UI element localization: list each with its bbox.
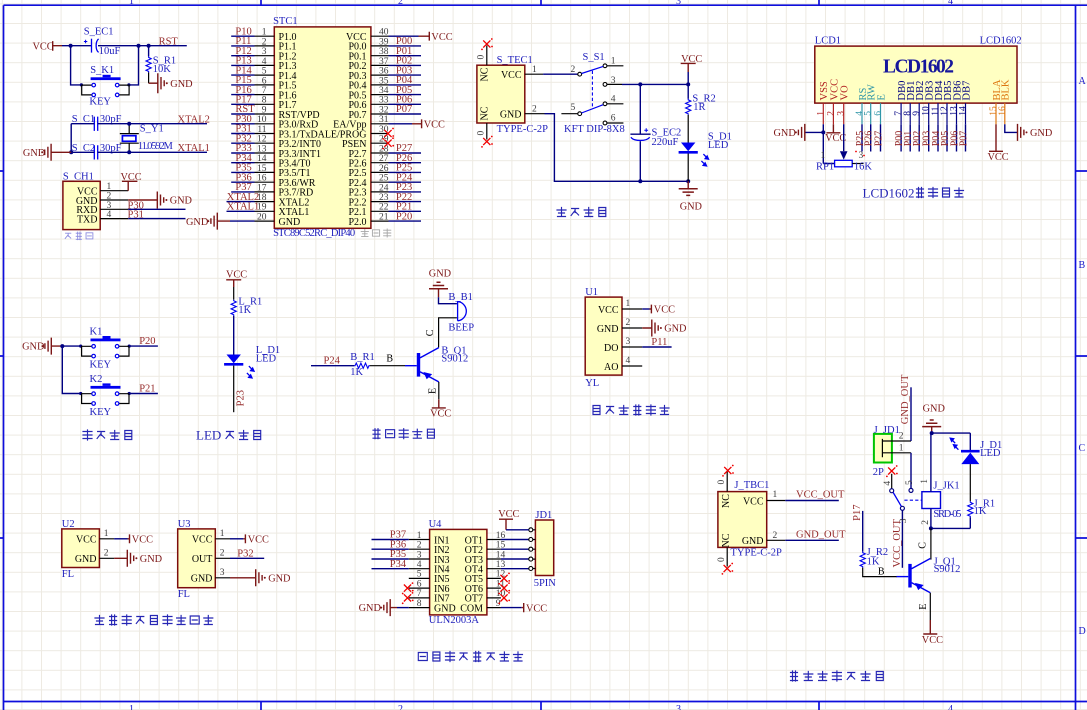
svg-text:GND: GND — [597, 324, 619, 335]
ground — [774, 124, 805, 141]
title stepper motor (Chinese) — [418, 652, 522, 662]
wire node B — [370, 353, 405, 365]
svg-text:1: 1 — [816, 111, 826, 116]
svg-text:E: E — [918, 604, 929, 610]
wire P21 — [129, 383, 158, 394]
wire — [687, 72, 689, 99]
ground — [128, 192, 192, 209]
junction — [69, 44, 151, 48]
svg-text:GND: GND — [1030, 128, 1053, 139]
svg-text:2: 2 — [899, 432, 904, 442]
svg-text:GND: GND — [75, 554, 97, 565]
potentiometer RP1 16K — [816, 151, 872, 173]
svg-text:STC1: STC1 — [273, 16, 298, 27]
svg-text:K2: K2 — [90, 374, 103, 385]
ground keys — [22, 338, 62, 355]
svg-text:1K: 1K — [350, 367, 363, 378]
wire P24 — [311, 355, 354, 366]
wire to key — [71, 46, 139, 85]
LED S_D1 — [679, 132, 732, 167]
svg-text:VCC: VCC — [498, 509, 519, 520]
wire — [805, 124, 835, 163]
svg-text:5: 5 — [571, 103, 576, 113]
ground — [149, 73, 194, 93]
svg-text:VCC: VCC — [226, 270, 247, 281]
connector J_JD1 2P — [873, 425, 911, 478]
pin stubs — [409, 540, 501, 608]
svg-text:2: 2 — [773, 531, 778, 541]
LED J_D1 — [949, 433, 1002, 464]
svg-text:VCC: VCC — [501, 70, 522, 81]
resistor L_R1 1K — [231, 296, 262, 316]
pin 1 stub — [525, 65, 543, 75]
svg-text:2: 2 — [571, 65, 576, 75]
relay contact 4 — [883, 474, 894, 493]
svg-text:10uF: 10uF — [99, 46, 121, 57]
svg-text:220uF: 220uF — [652, 137, 679, 148]
wire P32 — [230, 548, 264, 559]
svg-text:XTAL1: XTAL1 — [178, 143, 210, 154]
power port VCC — [825, 124, 846, 144]
pin numbers — [107, 182, 112, 220]
svg-text:1: 1 — [220, 529, 225, 539]
svg-text:5: 5 — [905, 480, 915, 485]
wire XTAL2 net — [71, 123, 207, 125]
svg-text:1: 1 — [104, 529, 109, 539]
svg-text:NC: NC — [721, 494, 732, 508]
no-connect pin30 — [382, 128, 394, 140]
svg-text:10: 10 — [257, 115, 267, 125]
power port VCC — [33, 41, 63, 52]
svg-text:C: C — [1079, 443, 1086, 454]
push button K1 KEY — [82, 326, 129, 370]
svg-text:1: 1 — [626, 299, 631, 309]
wire bottom rail — [931, 517, 970, 528]
wire — [639, 141, 641, 181]
wire — [233, 287, 235, 300]
no-connect OT5 — [498, 573, 510, 585]
svg-text:13: 13 — [257, 144, 267, 154]
svg-text:GND: GND — [774, 128, 797, 139]
svg-text:XTAL2: XTAL2 — [178, 115, 210, 126]
svg-text:0: 0 — [477, 131, 487, 136]
title infrared switch module (Chinese) — [95, 615, 213, 625]
svg-text:3: 3 — [626, 337, 631, 347]
svg-text:COM: COM — [460, 603, 483, 614]
svg-text:FL: FL — [62, 569, 74, 580]
svg-text:GND: GND — [140, 554, 163, 565]
pin stubs — [823, 103, 1005, 124]
svg-text:0: 0 — [717, 557, 727, 562]
ground — [114, 550, 163, 567]
svg-text:BEEP: BEEP — [448, 322, 474, 333]
svg-text:5: 5 — [864, 111, 874, 116]
node XTAL1 label — [178, 143, 210, 154]
capacitor S_C2 30pF — [72, 143, 122, 159]
svg-text:21: 21 — [379, 213, 389, 223]
svg-text:1: 1 — [262, 28, 267, 38]
connector S_CH1 download port — [63, 172, 100, 230]
svg-text:14: 14 — [959, 106, 969, 116]
no-connect OT7 — [498, 592, 510, 604]
svg-text:9: 9 — [912, 111, 922, 116]
svg-text:5: 5 — [262, 67, 267, 77]
svg-text:GND: GND — [680, 202, 703, 213]
resistor J_R2 1K — [860, 547, 888, 567]
svg-text:1K: 1K — [974, 506, 987, 517]
svg-text:LED: LED — [980, 448, 1001, 459]
svg-text:0: 0 — [717, 480, 727, 485]
wire — [233, 316, 235, 355]
svg-text:E: E — [428, 388, 439, 394]
svg-text:S9012: S9012 — [441, 354, 468, 365]
svg-text:12: 12 — [940, 106, 950, 116]
svg-text:1: 1 — [417, 531, 422, 541]
wire — [1005, 124, 1018, 132]
svg-text:2P: 2P — [873, 467, 884, 478]
svg-text:GND: GND — [170, 79, 193, 90]
wire P11 — [642, 337, 671, 348]
svg-text:1: 1 — [611, 57, 616, 67]
svg-text:GND: GND — [742, 536, 764, 547]
svg-text:3: 3 — [611, 76, 616, 86]
IC U3 FL infrared module — [178, 519, 216, 600]
switch S_S1 KFT DIP-8X8 — [561, 52, 624, 135]
svg-text:1: 1 — [532, 65, 537, 75]
ground — [230, 569, 291, 586]
svg-text:U4: U4 — [429, 519, 443, 530]
junction — [69, 122, 131, 155]
relay J_JK1 SRD-05 — [922, 481, 962, 521]
wire — [639, 84, 641, 134]
svg-text:4: 4 — [611, 94, 616, 104]
wire — [428, 382, 439, 399]
svg-text:16: 16 — [998, 106, 1008, 116]
svg-text:2: 2 — [104, 549, 109, 559]
no-connect — [481, 136, 493, 148]
title power-circuit (Chinese) — [557, 208, 606, 217]
svg-text:9: 9 — [496, 599, 501, 609]
no-connect IN7 — [402, 592, 414, 604]
svg-text:VCC: VCC — [132, 534, 153, 545]
svg-text:GND_OUT: GND_OUT — [796, 530, 846, 541]
node labels LCD nets — [855, 131, 970, 147]
svg-text:OUT: OUT — [192, 554, 213, 565]
svg-text:39: 39 — [379, 37, 389, 47]
power port VCC pin15 — [988, 124, 1009, 163]
svg-text:B_R1: B_R1 — [350, 352, 375, 363]
svg-text:J_TBC1: J_TBC1 — [734, 480, 769, 491]
svg-text:VCC: VCC — [743, 496, 764, 507]
LED L_D1 — [224, 345, 280, 379]
svg-text:22: 22 — [379, 203, 389, 213]
power port VCC — [114, 534, 153, 545]
wire top rail — [932, 432, 971, 434]
svg-text:5PIN: 5PIN — [534, 578, 557, 589]
svg-text:28: 28 — [379, 144, 389, 154]
svg-text:7: 7 — [262, 86, 267, 96]
svg-text:VCC: VCC — [430, 408, 451, 419]
ground relay — [922, 404, 945, 434]
svg-text:S_K1: S_K1 — [90, 65, 114, 76]
svg-text:34: 34 — [379, 86, 389, 96]
wire stepper inputs — [372, 540, 409, 569]
no-connect IN6 — [402, 582, 414, 594]
resistor S_R2 1R — [686, 93, 716, 115]
wire — [439, 297, 457, 303]
svg-text:B: B — [1079, 260, 1086, 271]
wire LCD data nets — [862, 124, 966, 151]
wire — [70, 124, 72, 153]
svg-text:FL: FL — [178, 589, 190, 600]
svg-text:6: 6 — [262, 76, 267, 86]
svg-text:LCD1602: LCD1602 — [863, 186, 915, 201]
title LED-circuit (Chinese) — [196, 428, 261, 443]
svg-text:7: 7 — [417, 589, 422, 599]
svg-text:VCC: VCC — [988, 152, 1009, 163]
capacitor S_EC1 10uF — [84, 27, 121, 58]
junction — [80, 83, 131, 86]
pin numbers — [257, 28, 389, 223]
svg-text:P17: P17 — [852, 505, 863, 521]
svg-text:GND: GND — [664, 324, 687, 335]
svg-text:1R: 1R — [693, 102, 705, 113]
crystal S_Y1 11.0592M — [120, 124, 174, 153]
svg-text:XTAL1: XTAL1 — [227, 202, 259, 213]
junction — [638, 82, 690, 183]
svg-text:C: C — [425, 329, 436, 336]
pin stubs — [529, 528, 536, 571]
svg-text:P20: P20 — [139, 336, 155, 347]
svg-text:2: 2 — [826, 111, 836, 116]
title rain-detect module (Chinese) — [593, 405, 669, 415]
connector S_TEC1 TYPE-C-2P — [477, 55, 548, 135]
svg-text:2: 2 — [626, 318, 631, 328]
svg-text:24: 24 — [379, 183, 389, 193]
svg-text:P27: P27 — [874, 131, 885, 147]
svg-text:TYPE-C-2P: TYPE-C-2P — [497, 124, 548, 135]
svg-text:TYPE-C-2P: TYPE-C-2P — [731, 547, 782, 558]
wire XTAL1 net — [71, 151, 207, 153]
svg-text:1: 1 — [129, 0, 134, 7]
svg-text:LED: LED — [708, 140, 729, 151]
ground pin20 — [186, 213, 255, 230]
svg-text:VCC: VCC — [654, 305, 675, 316]
svg-text:VCC: VCC — [192, 535, 213, 546]
wire coil pin2 — [921, 509, 931, 529]
connector J_TBC1 TYPE-C-2P — [718, 480, 782, 558]
svg-text:LCD1: LCD1 — [815, 36, 841, 47]
svg-text:33: 33 — [379, 96, 389, 106]
svg-text:YL: YL — [585, 378, 599, 389]
power port VCC pin40 — [389, 32, 453, 43]
pin 0 bottom — [477, 123, 487, 140]
pin stubs — [255, 36, 389, 221]
pin stubs — [99, 529, 114, 559]
svg-text:38: 38 — [379, 47, 389, 57]
svg-text:8: 8 — [417, 599, 422, 609]
ground — [679, 181, 703, 212]
ground — [23, 144, 71, 161]
svg-text:1: 1 — [129, 704, 134, 710]
svg-text:NC: NC — [480, 106, 491, 120]
svg-text:LCD1602: LCD1602 — [980, 36, 1022, 47]
svg-text:P31: P31 — [128, 210, 144, 221]
capacitor S_EC2 220uF — [630, 128, 681, 148]
pin stubs — [215, 529, 230, 578]
pin 2 stub — [525, 104, 545, 114]
no-connect — [481, 38, 493, 50]
svg-text:9: 9 — [262, 105, 267, 115]
svg-text:P07: P07 — [959, 131, 970, 147]
svg-text:4: 4 — [948, 0, 953, 7]
pin 0 bottom — [717, 547, 727, 566]
no-connect — [722, 465, 734, 477]
label download-port (Chinese) — [65, 232, 93, 240]
wire — [62, 346, 80, 393]
junction — [821, 130, 825, 134]
wire — [905, 453, 915, 489]
label MCU (Chinese) — [361, 229, 391, 237]
svg-text:36: 36 — [379, 67, 389, 77]
svg-text:KEY: KEY — [90, 407, 112, 418]
svg-text:NC: NC — [721, 533, 732, 547]
svg-text:U2: U2 — [62, 519, 75, 530]
connector JD1 5PIN — [534, 510, 557, 589]
svg-text:GND: GND — [191, 574, 213, 585]
pin numbers — [626, 299, 631, 366]
wire P17 — [852, 505, 863, 552]
wire coil pin1 — [920, 433, 931, 492]
svg-text:2: 2 — [220, 549, 225, 559]
pin numbers — [417, 531, 506, 609]
svg-text:4: 4 — [883, 481, 893, 486]
junction — [929, 431, 934, 530]
pin stubs — [100, 191, 128, 219]
svg-text:VCC: VCC — [431, 32, 452, 43]
svg-text:11: 11 — [257, 125, 266, 135]
svg-text:2: 2 — [921, 520, 931, 525]
wire MCU left nets — [227, 36, 255, 211]
wire stepper outputs — [501, 540, 529, 569]
junction — [60, 344, 131, 395]
wire collector — [918, 528, 931, 559]
node XTAL2 label — [178, 115, 210, 126]
wire GND_OUT — [767, 530, 846, 541]
svg-text:3: 3 — [417, 550, 422, 560]
no-connect — [886, 465, 898, 477]
wire — [843, 124, 845, 151]
svg-text:VCC: VCC — [598, 305, 619, 316]
svg-text:8: 8 — [262, 96, 267, 106]
svg-text:1: 1 — [920, 479, 930, 484]
title buzzer-circuit (Chinese) — [373, 429, 434, 439]
svg-text:S_Y1: S_Y1 — [140, 124, 164, 135]
relay contact 5 — [909, 488, 913, 492]
IC STC1 STC89C52RC_DIP40 MCU — [273, 16, 371, 239]
svg-text:B_B1: B_B1 — [448, 292, 473, 303]
svg-text:25: 25 — [379, 174, 389, 184]
svg-text:P2.0: P2.0 — [348, 217, 366, 228]
svg-text:2: 2 — [532, 104, 537, 114]
power port VCC JD1 — [498, 509, 529, 530]
wire — [969, 464, 971, 501]
svg-text:K1: K1 — [90, 326, 103, 337]
svg-text:E: E — [876, 94, 887, 100]
svg-text:P11: P11 — [651, 337, 667, 348]
svg-text:U3: U3 — [178, 519, 191, 530]
svg-text:3: 3 — [220, 568, 225, 578]
svg-text:VCC: VCC — [922, 635, 943, 646]
wire P23 — [234, 366, 247, 413]
power port VCC — [121, 172, 142, 191]
svg-text:ULN2003A: ULN2003A — [429, 615, 480, 626]
svg-text:KEY: KEY — [89, 97, 111, 108]
svg-text:3: 3 — [676, 704, 681, 710]
svg-text:32: 32 — [379, 105, 389, 115]
svg-text:12: 12 — [257, 135, 267, 145]
svg-text:VCC_OUT: VCC_OUT — [796, 490, 845, 501]
node labels P00-P07 P20-P27 — [396, 36, 413, 222]
svg-text:B: B — [386, 353, 393, 364]
wire — [687, 115, 689, 143]
buzzer B_B1 BEEP — [448, 292, 474, 334]
wire — [918, 593, 930, 620]
pin 0 top — [717, 471, 727, 492]
wire — [687, 154, 689, 182]
svg-text:1: 1 — [773, 490, 778, 500]
wire P20 — [129, 336, 158, 347]
svg-text:1: 1 — [899, 444, 904, 454]
wire RST net — [62, 45, 187, 47]
power port VCC — [681, 54, 703, 72]
svg-text:26: 26 — [379, 164, 389, 174]
svg-text:BLK: BLK — [1001, 79, 1012, 100]
svg-text:GND: GND — [434, 603, 456, 614]
resistor S_R1 10K — [146, 46, 176, 83]
power port VCC — [642, 305, 675, 316]
svg-text:11.0592M: 11.0592M — [138, 141, 174, 152]
svg-text:SRD-05: SRD-05 — [933, 509, 961, 520]
svg-text:VO: VO — [840, 85, 851, 101]
svg-text:1K: 1K — [238, 305, 251, 316]
svg-text:VCC: VCC — [248, 534, 269, 545]
svg-text:P21: P21 — [139, 383, 155, 394]
svg-text:3: 3 — [676, 0, 681, 7]
resistor B_R1 1K — [350, 352, 375, 378]
IC U2 FL infrared module — [62, 519, 100, 580]
svg-text:40: 40 — [379, 28, 389, 38]
power port VCC — [226, 270, 247, 287]
svg-text:P20: P20 — [396, 211, 412, 222]
wire P30 — [128, 200, 186, 211]
svg-text:6: 6 — [611, 114, 616, 124]
svg-text:31: 31 — [379, 115, 389, 125]
svg-text:VCC: VCC — [526, 603, 547, 614]
svg-text:GND: GND — [186, 217, 209, 228]
wire P31 — [128, 210, 186, 221]
title key-circuit (Chinese) — [83, 430, 132, 440]
pin numbers — [816, 106, 1008, 116]
svg-text:GND: GND — [500, 110, 522, 121]
title relay control circuit (Chinese) — [791, 671, 884, 681]
svg-text:0: 0 — [477, 55, 487, 60]
node labels P10-P17 RST P30-P37 XTAL1-2 — [227, 26, 259, 212]
ground — [359, 599, 409, 616]
transistor B_Q1 S9012 — [405, 345, 468, 381]
svg-text:P34: P34 — [390, 559, 407, 570]
svg-text:27: 27 — [379, 154, 389, 164]
